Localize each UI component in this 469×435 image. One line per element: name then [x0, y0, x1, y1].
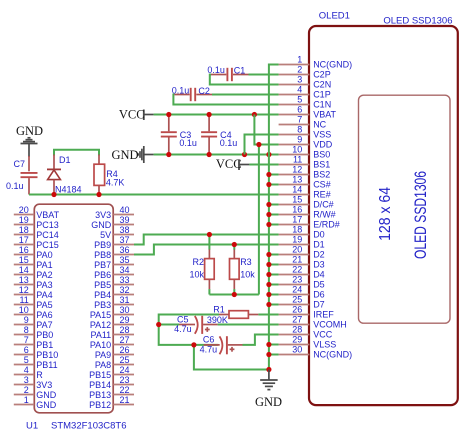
svg-text:20: 20	[292, 245, 302, 255]
svg-text:33: 33	[120, 275, 130, 285]
svg-text:PB9: PB9	[94, 240, 111, 250]
U1 pin 33 PB5	[94, 275, 134, 290]
U1 pin 2 GND	[14, 385, 57, 400]
svg-text:28: 28	[292, 325, 302, 335]
svg-text:NC(GND): NC(GND)	[313, 60, 352, 70]
R3 labels	[240, 257, 255, 279]
junction GND bus y=264.5	[266, 262, 271, 267]
junction R3 bottom	[232, 292, 237, 297]
net label VCC (left)	[119, 108, 145, 122]
svg-text:128 x 64: 128 x 64	[377, 187, 394, 241]
svg-text:14: 14	[19, 265, 29, 275]
C3 labels	[179, 130, 197, 148]
svg-text:R/W#: R/W#	[313, 210, 336, 220]
U1 pin 12 PA4	[14, 285, 53, 300]
svg-text:18: 18	[292, 225, 302, 235]
svg-text:OLED SSD1306: OLED SSD1306	[411, 171, 430, 259]
svg-text:0.1u: 0.1u	[179, 138, 197, 148]
svg-text:14: 14	[292, 185, 302, 195]
svg-text:PA9: PA9	[95, 350, 111, 360]
svg-text:4: 4	[24, 365, 29, 375]
U1 pin 4 R	[14, 365, 44, 380]
wire IREF row left	[159, 315, 219, 345]
svg-text:VLSS: VLSS	[313, 340, 336, 350]
OLED1 pin 13 CS#	[279, 175, 331, 190]
junction GND bus y=184.5	[266, 182, 271, 187]
svg-text:PA3: PA3	[36, 280, 52, 290]
svg-text:21: 21	[292, 255, 302, 265]
OLED1 pin 20 D2	[279, 245, 325, 260]
wire PB8 to D1 pin19 (SDA)	[134, 245, 279, 255]
U1 pin 6 PB10	[14, 345, 59, 360]
svg-text:26: 26	[292, 305, 302, 315]
junction GND bus y=204.5	[266, 202, 271, 207]
wire GND bus vertical	[269, 65, 279, 370]
svg-text:VCOMH: VCOMH	[313, 320, 347, 330]
U1 pin 32 PB4	[94, 285, 134, 300]
svg-text:29: 29	[292, 335, 302, 345]
U1 pin 19 PC13	[14, 215, 59, 230]
svg-text:PA1: PA1	[36, 260, 52, 270]
OLED1 pin 29 VLSS	[279, 335, 337, 350]
svg-text:17: 17	[292, 215, 302, 225]
U1 pin 21 PB12	[89, 395, 134, 410]
wire C1 left to C2N pin3	[210, 75, 279, 85]
svg-text:PB5: PB5	[94, 280, 111, 290]
svg-text:GND: GND	[16, 124, 43, 138]
svg-text:390K: 390K	[207, 315, 228, 325]
wire VCC branch to VDD pin9	[254, 115, 278, 145]
U1 pin 7 PB1	[14, 335, 54, 350]
svg-text:PB14: PB14	[89, 380, 111, 390]
capacitor C4	[201, 116, 217, 154]
junction SCL/R2	[207, 232, 212, 237]
svg-text:8: 8	[24, 325, 29, 335]
junction GND bus y=214.5	[266, 212, 271, 217]
svg-text:13: 13	[19, 275, 29, 285]
U1 pin 20 VBAT	[14, 205, 60, 220]
svg-text:5V: 5V	[100, 230, 111, 240]
svg-text:19: 19	[292, 235, 302, 245]
svg-text:10: 10	[19, 305, 29, 315]
svg-text:39: 39	[120, 215, 130, 225]
U1 pin 14 PA2	[14, 265, 53, 280]
OLED1 pin 3 C2N	[279, 75, 332, 90]
svg-text:PB12: PB12	[89, 400, 111, 410]
svg-text:25: 25	[292, 295, 302, 305]
svg-text:6: 6	[24, 345, 29, 355]
svg-text:BS0: BS0	[313, 150, 330, 160]
junction GND bus y=354.5	[266, 352, 271, 357]
U1 pin 30 PA15	[90, 305, 134, 320]
svg-text:C5: C5	[177, 314, 189, 324]
svg-text:D1: D1	[59, 155, 71, 165]
wire VCC rail to VBAT pin6	[154, 114, 279, 116]
svg-text:PB7: PB7	[94, 260, 111, 270]
wire GND bus stub y=214.5	[269, 214, 279, 216]
svg-text:D6: D6	[313, 290, 325, 300]
U1 pin 13 PA3	[14, 275, 53, 290]
svg-text:2: 2	[24, 385, 29, 395]
svg-text:R2: R2	[192, 257, 204, 267]
OLED1 pin 23 D5	[279, 275, 325, 290]
junction VCC rail x=209.1	[207, 112, 212, 117]
svg-text:PB10: PB10	[36, 350, 58, 360]
svg-text:VBAT: VBAT	[36, 210, 59, 220]
svg-text:24: 24	[120, 365, 130, 375]
junction SDA/R3	[232, 242, 237, 247]
svg-text:24: 24	[292, 285, 302, 295]
wire pullup bottom rail	[209, 294, 259, 296]
OLED1 pin 28 VCC	[279, 325, 333, 340]
wire GND bus stub y=224.5	[269, 224, 279, 226]
U1 pin 5 PB11	[14, 355, 58, 370]
svg-text:C6: C6	[203, 335, 215, 345]
svg-text:25: 25	[120, 355, 130, 365]
wire VDD branch down to pullup rail	[258, 145, 260, 295]
ground symbol (left, sideways)	[138, 146, 153, 163]
svg-text:16: 16	[19, 245, 29, 255]
svg-text:C2: C2	[198, 86, 210, 96]
wire PB9 to D0 pin18 (SCL)	[134, 235, 279, 245]
wire GND bus stub y=354.5	[269, 354, 279, 356]
svg-text:2: 2	[297, 65, 302, 75]
net label GND (left)	[112, 148, 139, 162]
svg-text:16: 16	[292, 205, 302, 215]
wire GND bus stub y=174.5	[269, 174, 279, 176]
svg-text:26: 26	[120, 345, 130, 355]
OLED1 pin 30 NC(GND)	[279, 345, 353, 360]
wire GND drop from C6 rail	[194, 345, 269, 370]
svg-text:0.1u: 0.1u	[207, 65, 225, 75]
C1 labels	[207, 65, 245, 76]
wire reset rail to RE# pin14	[29, 194, 279, 196]
ground symbol (bottom)	[260, 370, 278, 390]
OLED1 pin 21 D3	[279, 255, 325, 270]
svg-text:BS1: BS1	[313, 160, 330, 170]
svg-text:R1: R1	[213, 305, 225, 315]
junction GND bus y=284.5	[266, 282, 271, 287]
U1 value label STM32F103C8T6	[51, 420, 127, 431]
U1 pin 37 PB9	[94, 235, 134, 250]
svg-text:38: 38	[120, 225, 130, 235]
svg-text:PC15: PC15	[36, 240, 59, 250]
svg-text:R: R	[36, 370, 43, 380]
capacitor C1	[211, 68, 249, 81]
net label GND (bottom)	[255, 395, 282, 409]
svg-text:36: 36	[120, 245, 130, 255]
svg-text:D5: D5	[313, 280, 325, 290]
svg-text:5: 5	[24, 355, 29, 365]
capacitor C3	[161, 116, 177, 154]
svg-text:17: 17	[19, 235, 29, 245]
svg-text:D1: D1	[313, 240, 325, 250]
svg-text:PB0: PB0	[36, 330, 53, 340]
svg-text:OLED1: OLED1	[319, 10, 350, 21]
svg-text:C1: C1	[234, 65, 246, 75]
wire GND bus stub y=284.5	[269, 284, 279, 286]
svg-text:R3: R3	[240, 257, 252, 267]
svg-text:STM32F103C8T6: STM32F103C8T6	[51, 420, 127, 431]
ground symbol (top left)	[21, 138, 38, 157]
OLED1 pin 14 RE#	[279, 185, 331, 200]
OLED1 reference designator	[319, 10, 350, 21]
U1 pin 26 PA9	[95, 345, 134, 360]
svg-text:C2N: C2N	[313, 80, 331, 90]
junction GND bus y=254.5	[266, 252, 271, 257]
OLED1 pin 15 D/C#	[279, 195, 334, 210]
svg-text:GND: GND	[255, 395, 282, 409]
C4 labels	[220, 130, 238, 148]
svg-text:30: 30	[292, 345, 302, 355]
C5 labels	[174, 314, 192, 334]
wire GND bus stub y=204.5	[269, 204, 279, 206]
OLED1 connector body	[309, 26, 458, 405]
junction GND rail x=244.5	[242, 152, 247, 157]
U1 pin 8 PB0	[14, 325, 54, 340]
svg-text:C1N: C1N	[313, 100, 331, 110]
svg-text:U1: U1	[26, 420, 38, 431]
junction R4/reset rail	[96, 192, 101, 197]
U1 pin 11 PA5	[14, 295, 53, 310]
svg-text:27: 27	[292, 315, 302, 325]
svg-text:PA0: PA0	[36, 250, 52, 260]
svg-text:23: 23	[292, 275, 302, 285]
wire GND bus stub y=184.5	[269, 184, 279, 186]
svg-text:4.7K: 4.7K	[106, 178, 125, 188]
svg-text:9: 9	[24, 315, 29, 325]
svg-text:PC13: PC13	[36, 220, 59, 230]
svg-text:PB4: PB4	[94, 290, 111, 300]
svg-text:NC(GND): NC(GND)	[313, 350, 352, 360]
svg-text:D0: D0	[313, 230, 325, 240]
net label GND (top left)	[16, 124, 43, 138]
OLED1 pin 22 D4	[279, 265, 325, 280]
U1 pin 16 PA0	[14, 245, 53, 260]
svg-text:15: 15	[19, 255, 29, 265]
OLED1 pin 18 D0	[279, 225, 325, 240]
U1 pin 9 PA7	[14, 315, 53, 330]
OLED1 pin 16 R/W#	[279, 205, 336, 220]
U1 pin 1 GND	[14, 395, 57, 410]
capacitor C7	[21, 156, 38, 195]
svg-text:22: 22	[292, 265, 302, 275]
svg-text:40: 40	[120, 205, 130, 215]
svg-text:10k: 10k	[240, 270, 255, 280]
OLED1 pin 17 E/RD#	[279, 215, 340, 230]
svg-text:PA4: PA4	[36, 290, 52, 300]
resistor R3	[230, 245, 240, 295]
svg-text:34: 34	[120, 265, 130, 275]
U1 pin 15 PA1	[14, 255, 53, 270]
OLED1 pin 10 BS0	[279, 145, 331, 160]
OLED1 pin 1 NC(GND)	[279, 55, 353, 70]
svg-text:PC14: PC14	[36, 230, 59, 240]
svg-text:37: 37	[120, 235, 130, 245]
svg-text:7: 7	[297, 115, 302, 125]
svg-text:PA6: PA6	[36, 310, 52, 320]
svg-text:VSS: VSS	[313, 130, 331, 140]
svg-text:11: 11	[293, 155, 302, 165]
OLED display inner outline	[359, 95, 451, 323]
wire GND bus stub y=304.5	[269, 304, 279, 306]
svg-text:C2P: C2P	[313, 70, 331, 80]
U1 pin 27 PA10	[90, 335, 134, 350]
U1 pin 17 PC15	[14, 235, 59, 250]
svg-text:22: 22	[120, 385, 130, 395]
OLED1 pin 25 D7	[279, 295, 325, 310]
svg-text:PB11: PB11	[36, 360, 57, 370]
svg-text:VCC: VCC	[313, 330, 333, 340]
resistor R2	[205, 235, 215, 295]
junction VCC rail x=168.8	[166, 112, 171, 117]
svg-text:5: 5	[297, 95, 302, 105]
wire C5 right to VCOMH pin27	[218, 324, 279, 326]
svg-text:21: 21	[120, 395, 130, 405]
R4 labels	[106, 169, 125, 187]
svg-text:3: 3	[24, 375, 29, 385]
svg-text:CS#: CS#	[313, 180, 331, 190]
power symbol VCC (BS1)	[239, 160, 249, 171]
svg-text:PB8: PB8	[94, 250, 111, 260]
svg-text:E/RD#: E/RD#	[313, 220, 340, 230]
OLED1 pin 26 IREF	[279, 305, 335, 320]
U1 pin 3 3V3	[14, 375, 53, 390]
svg-text:20: 20	[19, 205, 29, 215]
svg-text:C1P: C1P	[313, 90, 331, 100]
svg-text:VBAT: VBAT	[313, 110, 336, 120]
C2 labels	[172, 85, 210, 96]
U1 pin 18 PC14	[14, 225, 59, 240]
svg-text:1: 1	[297, 55, 302, 65]
svg-text:1: 1	[24, 395, 29, 405]
resistor R4	[94, 155, 105, 195]
U1 pin 35 PB7	[94, 255, 134, 270]
OLED1 pin 27 VCOMH	[279, 315, 347, 330]
U1 pin 10 PA6	[14, 305, 53, 320]
capacitor C2	[174, 88, 212, 101]
R2 labels	[189, 257, 204, 279]
junction GND bus y=224.5	[266, 222, 271, 227]
svg-text:D/C#: D/C#	[313, 200, 334, 210]
U1 pin 29 PA12	[90, 315, 134, 330]
diode D1	[47, 155, 61, 195]
svg-text:PB3: PB3	[94, 300, 111, 310]
junction GND bus y=304.5	[266, 302, 271, 307]
OLED1 pin 8 VSS	[279, 125, 332, 140]
svg-text:15: 15	[292, 195, 302, 205]
svg-text:GND: GND	[91, 220, 112, 230]
OLED1 pin 4 C1P	[279, 85, 331, 100]
OLED1 pin 7 NC	[279, 115, 327, 130]
junction GND rail x=168.8	[166, 152, 171, 157]
svg-text:IREF: IREF	[313, 310, 334, 320]
label OLED SSD1306 (vertical)	[411, 171, 430, 259]
svg-text:3V3: 3V3	[95, 210, 111, 220]
svg-text:PA7: PA7	[36, 320, 52, 330]
U1 pin 24 PB15	[89, 365, 134, 380]
svg-text:VCC: VCC	[216, 157, 242, 171]
svg-text:10k: 10k	[189, 270, 204, 280]
svg-text:PB1: PB1	[36, 340, 53, 350]
svg-text:9: 9	[297, 135, 302, 145]
svg-text:PA2: PA2	[36, 270, 52, 280]
svg-text:7: 7	[24, 335, 29, 345]
junction bottom GND node	[266, 367, 271, 372]
svg-text:10: 10	[292, 145, 302, 155]
U1 pin 22 PB13	[89, 385, 134, 400]
svg-text:GND: GND	[112, 148, 139, 162]
svg-text:19: 19	[19, 215, 29, 225]
svg-text:28: 28	[120, 325, 130, 335]
OLED1 pin 6 VBAT	[279, 105, 337, 120]
U1 pin 36 PB8	[94, 245, 134, 260]
wire C1 right to C2P pin2	[249, 74, 279, 76]
OLED1 pin 24 D6	[279, 285, 325, 300]
svg-text:23: 23	[120, 375, 130, 385]
svg-text:RE#: RE#	[313, 190, 331, 200]
svg-text:VDD: VDD	[313, 140, 333, 150]
microcontroller U1 body	[34, 204, 113, 413]
wire C6 right to VCC pin28	[243, 335, 279, 345]
svg-text:PA5: PA5	[36, 300, 52, 310]
svg-text:NC: NC	[313, 120, 326, 130]
capacitor C6	[204, 336, 243, 354]
C6 labels	[200, 335, 218, 355]
svg-text:PA15: PA15	[90, 310, 111, 320]
svg-text:3V3: 3V3	[36, 380, 52, 390]
svg-text:4.7u: 4.7u	[200, 345, 218, 355]
junction C5 left	[156, 322, 161, 327]
U1 pin 40 3V3	[95, 205, 134, 220]
svg-text:PA11: PA11	[91, 330, 112, 340]
svg-text:4: 4	[297, 85, 302, 95]
svg-text:12: 12	[19, 285, 29, 295]
C7 labels	[6, 159, 25, 191]
svg-text:29: 29	[120, 315, 130, 325]
svg-text:11: 11	[19, 295, 28, 305]
svg-text:PB6: PB6	[94, 270, 111, 280]
junction GND bus y=174.5	[266, 172, 271, 177]
svg-text:D3: D3	[313, 260, 325, 270]
svg-text:31: 31	[120, 295, 130, 305]
svg-text:OLED SSD1306: OLED SSD1306	[383, 15, 452, 26]
svg-text:0.1u: 0.1u	[220, 138, 238, 148]
U1 pin 34 PB6	[94, 265, 134, 280]
R1 labels	[207, 305, 228, 325]
OLED1 pin 11 BS1	[279, 155, 331, 170]
capacitor C5	[159, 316, 218, 334]
U1 pin 25 PA8	[95, 355, 134, 370]
svg-text:VCC: VCC	[119, 108, 145, 122]
junction GND bus y=274.5	[266, 272, 271, 277]
wire GND bus stub y=344.5	[269, 344, 279, 346]
junction GND bus y=294.5	[266, 292, 271, 297]
svg-text:PA10: PA10	[90, 340, 111, 350]
svg-text:0.1u: 0.1u	[6, 181, 24, 191]
junction GND rail x=268.9	[266, 152, 271, 157]
svg-text:D4: D4	[313, 270, 325, 280]
svg-text:30: 30	[120, 305, 130, 315]
wire GND bus stub y=274.5	[269, 274, 279, 276]
svg-text:PB13: PB13	[89, 390, 111, 400]
junction VDD branch	[256, 142, 261, 147]
junction GND bus y=344.5	[266, 342, 271, 347]
U1 reference designator	[26, 420, 38, 431]
svg-text:32: 32	[120, 285, 130, 295]
U1 pin 23 PB14	[89, 375, 134, 390]
svg-text:PA12: PA12	[90, 320, 111, 330]
